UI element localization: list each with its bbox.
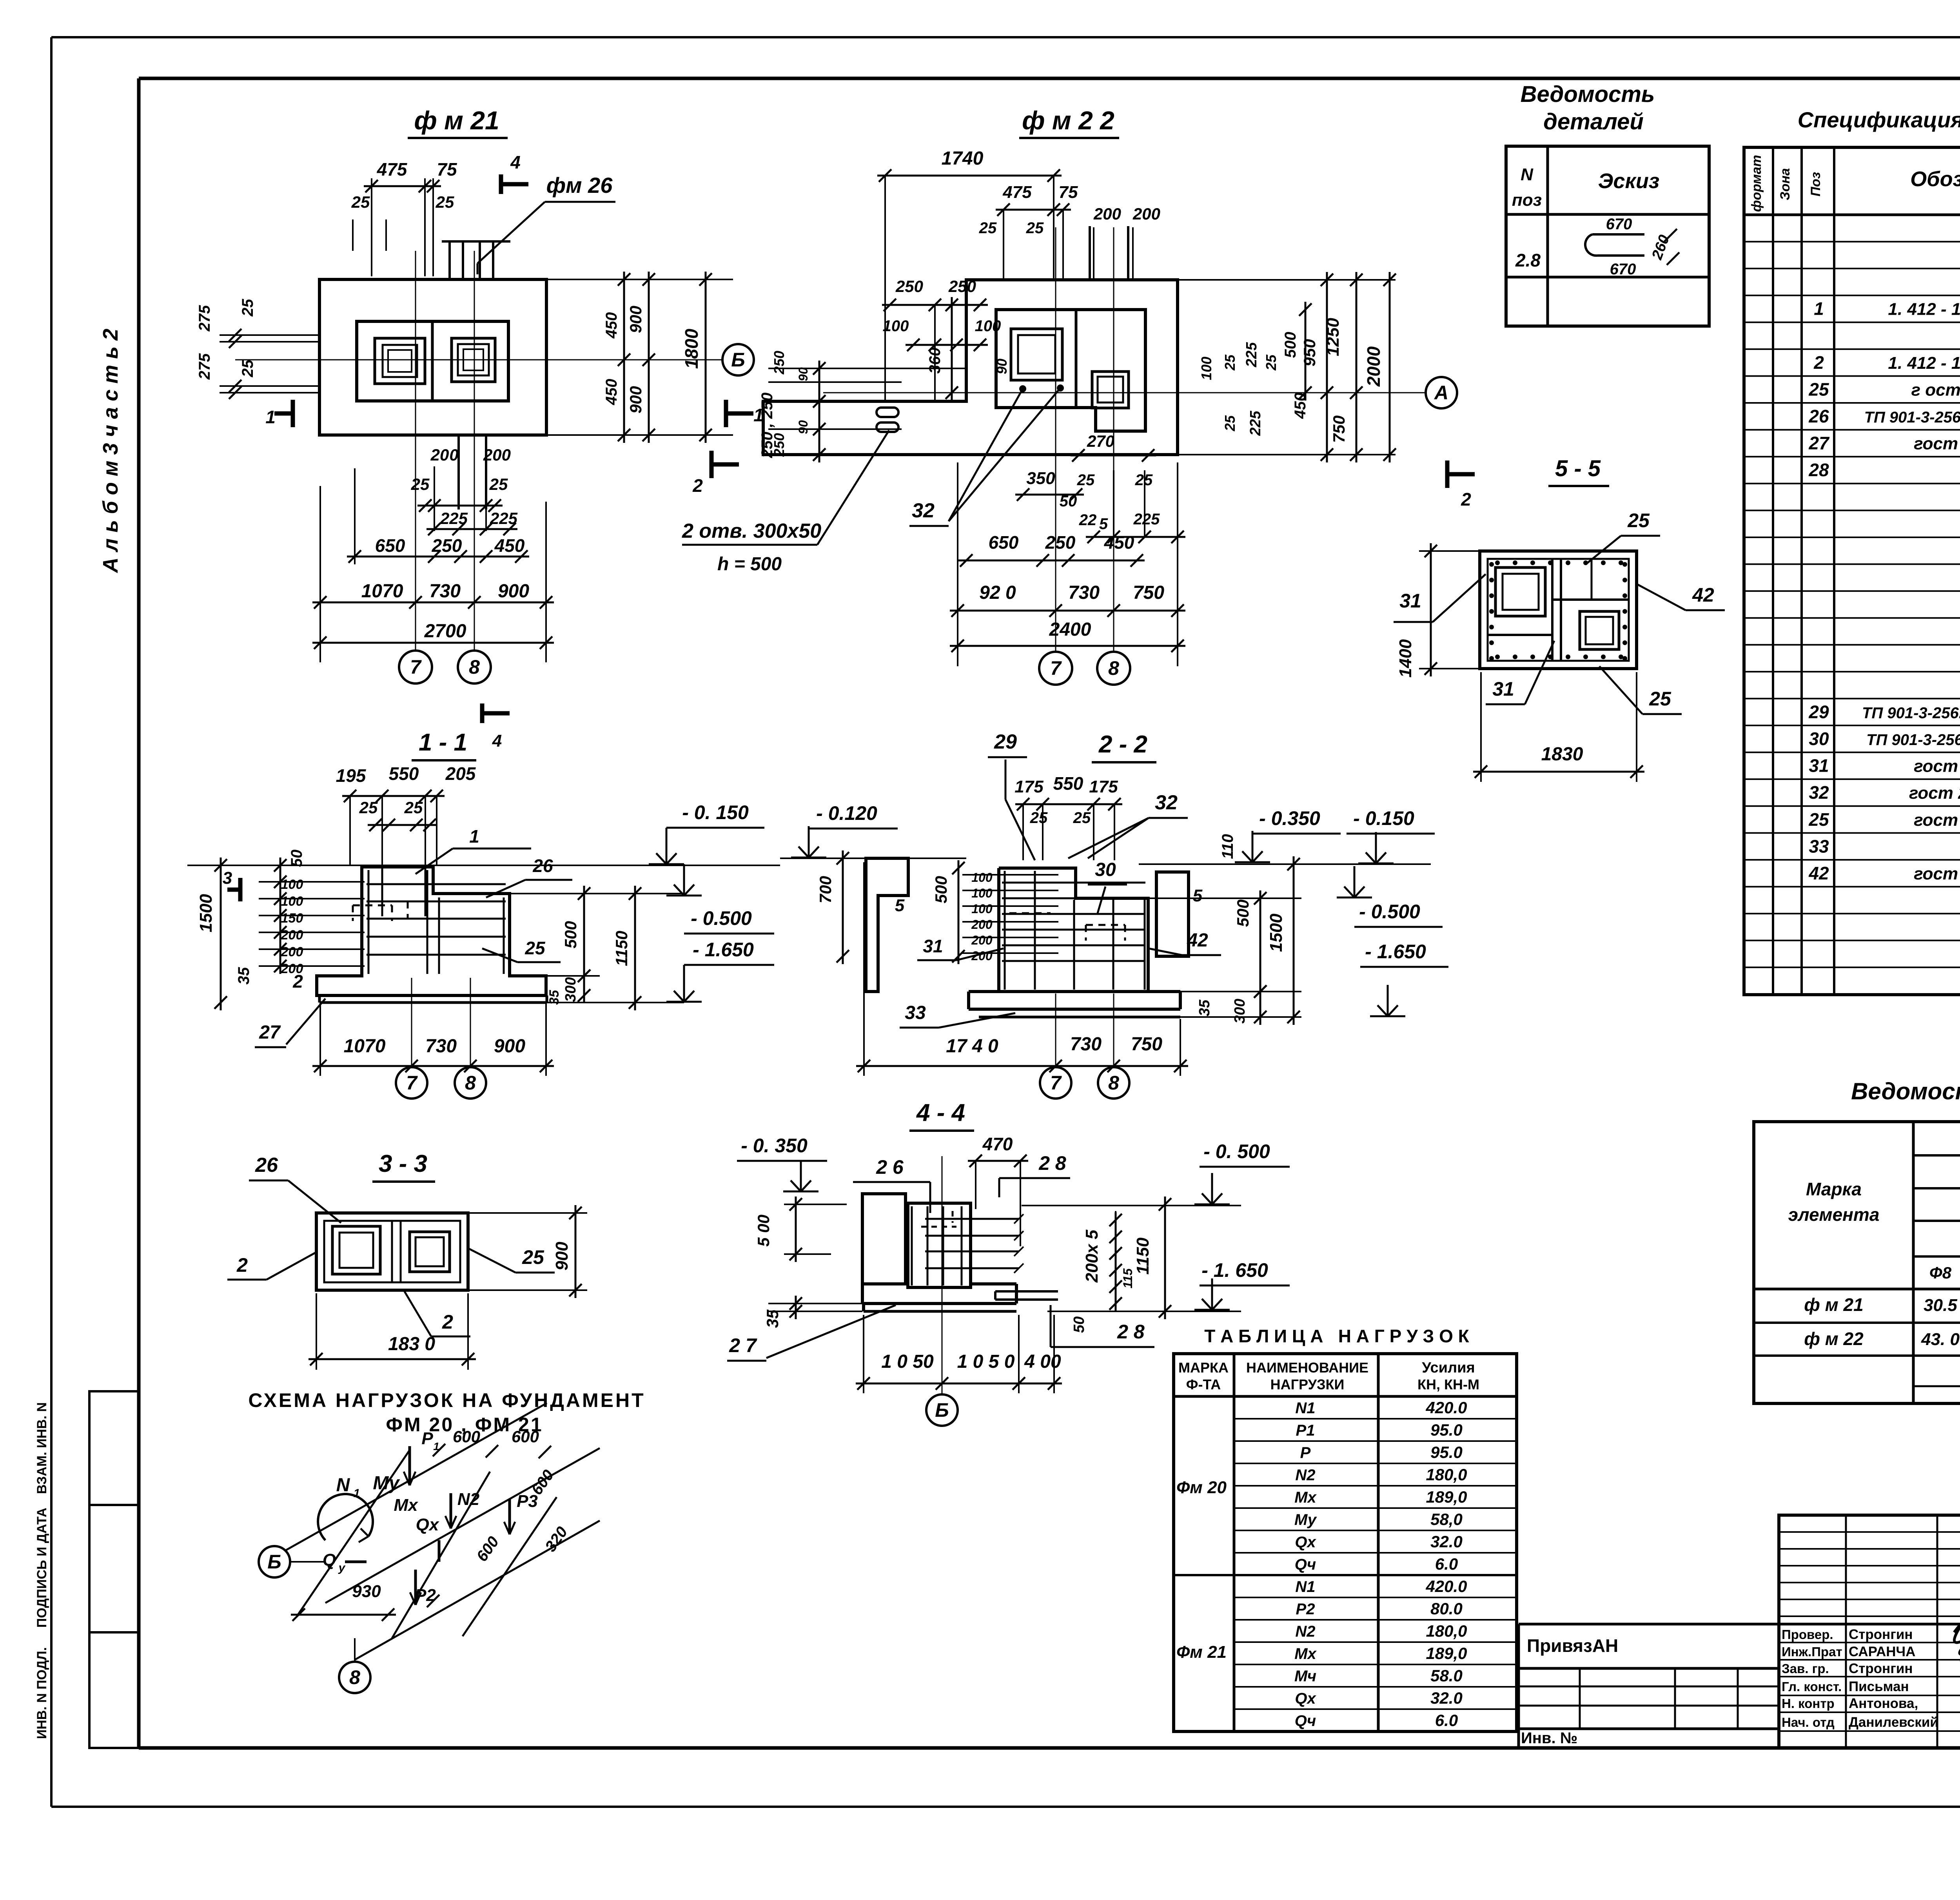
svg-text:300: 300 [563,977,579,1002]
svg-text:250 , 250: 250 , 250 [759,393,776,459]
svg-text:КН, КН-М: КН, КН-М [1417,1376,1479,1392]
axis circle A [1426,377,1457,408]
svg-text:Qч: Qч [1295,1556,1316,1573]
svg-text:НАГРУЗКИ: НАГРУЗКИ [1270,1376,1345,1392]
svg-text:Зав. гр.: Зав. гр. [1782,1661,1829,1676]
1-1 level -0.150 [649,801,764,864]
4-4 right dims 200x5 50 1150 [1071,1197,1171,1333]
svg-text:900: 900 [626,306,645,333]
title block: signature names [1782,1627,1938,1730]
svg-text:30: 30 [1809,729,1829,749]
1-1 level -1.650 [666,939,774,1002]
section mark 2 right of FM22 [1447,460,1475,509]
svg-text:670: 670 [1610,261,1636,278]
svg-text:2700: 2700 [424,621,466,642]
svg-text:2: 2 [236,1254,248,1276]
svg-text:35: 35 [1196,999,1213,1016]
svg-text:950: 950 [1300,339,1319,366]
svg-text:Мх: Мх [1294,1489,1317,1506]
svg-text:22: 22 [1079,511,1097,529]
svg-text:58,0: 58,0 [1430,1510,1463,1528]
svg-text:Ф-ТА: Ф-ТА [1186,1376,1221,1392]
2-2 level -1.650 [1360,941,1448,1016]
svg-text:25: 25 [239,359,256,377]
svg-text:- 0. 500: - 0. 500 [1203,1140,1270,1162]
1-1 ground level line [187,865,780,866]
specification row 1 [1814,299,1960,319]
svg-text:92 0: 92 0 [979,582,1016,603]
3-3 dim 900 [468,1205,587,1298]
svg-text:фм 26: фм 26 [546,173,613,198]
axis B line [235,359,723,361]
svg-text:N2: N2 [1295,1467,1315,1484]
svg-text:Письман: Письман [1849,1679,1909,1694]
svg-text:900: 900 [498,581,529,602]
svg-text:730: 730 [1068,582,1100,603]
FM22 left dims 250 250 100 100 360 [882,277,1010,401]
svg-text:1800: 1800 [681,328,702,369]
specification row 2 [1813,352,1960,373]
specification: column headers [1749,155,1960,212]
svg-text:ТП 901-3-256.89- кж. и83.0.: ТП 901-3-256.89- кж. и83.0.0.0 [1866,731,1960,749]
svg-text:Р2: Р2 [1296,1601,1315,1618]
svg-text:730: 730 [425,1036,457,1057]
svg-text:САРАНЧА: САРАНЧА [1849,1644,1915,1659]
svg-text:Провер.: Провер. [1782,1627,1833,1642]
svg-text:600: 600 [453,1427,480,1446]
svg-text:2 8: 2 8 [1117,1321,1145,1343]
svg-text:35: 35 [547,990,562,1005]
svg-text:90: 90 [796,367,810,381]
svg-text:Му: Му [1294,1511,1317,1528]
2-2 top dims 175 550 175 [1014,773,1122,860]
5-5 dim 1830 [1473,672,1644,782]
svg-text:2 6: 2 6 [876,1156,904,1178]
svg-text:2: 2 [1813,352,1824,373]
specification row 33 [1809,835,1960,859]
svg-text:175: 175 [1014,777,1044,796]
FM21 right anchor box [452,338,495,382]
steel usage: row FM22 [1804,1326,1960,1351]
svg-text:гост 24379.1- 80: гост 24379.1- 80 [1909,783,1960,803]
svg-text:N: N [1521,165,1534,184]
FM22 left anchor box [1011,329,1062,380]
svg-text:650: 650 [989,532,1019,553]
load scheme arrows and labels [318,1429,538,1605]
svg-text:100: 100 [971,902,993,916]
loads table: grid [1174,1354,1517,1731]
svg-text:N1: N1 [1295,1578,1315,1595]
svg-text:200х 5: 200х 5 [1082,1229,1102,1283]
svg-text:25: 25 [1135,471,1153,489]
specification row 25 [1808,378,1960,402]
2-2 bottom dims 1740 730 750 [856,862,1188,1076]
svg-text:Qх: Qх [416,1515,439,1534]
svg-text:930: 930 [352,1582,381,1601]
label 42 (5-5) with leader [1637,584,1725,610]
label 32 with leaders (2-2) [1068,791,1188,858]
svg-text:Мх: Мх [394,1496,418,1515]
FM22 oval holes 2x300x50 [877,408,898,432]
svg-text:ф м 22: ф м 22 [1804,1329,1864,1349]
svg-text:ИНВ. N ПОДЛ.: ИНВ. N ПОДЛ. [34,1647,49,1739]
svg-text:90: 90 [796,420,810,434]
specification row 27 [1808,432,1960,456]
svg-text:1. 412 - 1/77 - В.3 - 020: 1. 412 - 1/77 - В.3 - 020 [1888,300,1960,319]
FM21 dims 1070 730 900 [312,486,554,662]
2-2 level -0.150 [1347,807,1435,863]
specification row 31 [1809,754,1960,779]
svg-text:2: 2 [692,475,703,496]
svg-text:формат: формат [1749,155,1764,212]
svg-text:33: 33 [905,1003,926,1023]
label FM26 with leader [477,173,615,274]
specification row 42 [1808,862,1960,886]
5-5 dim 1400 [1396,543,1480,678]
svg-text:гост 23279 - 85: гост 23279 - 85 [1914,864,1960,883]
FM21 vertical axes 7 and 8 [416,251,474,651]
4-4 rebar lines with hooks [912,1206,1058,1300]
svg-text:42: 42 [1808,863,1829,883]
1-1 section mark 3 [223,868,240,901]
svg-text:- 0.120: - 0.120 [816,802,877,824]
svg-text:Гл. конст.: Гл. конст. [1782,1679,1842,1694]
4-4 level -1.650 [1047,1259,1290,1311]
FM22 far-left small dims 250 90 90 250 [768,351,966,462]
section 4-4: title [909,1099,974,1131]
svg-text:27: 27 [259,1022,281,1043]
svg-text:900: 900 [626,386,645,413]
svg-text:25: 25 [1649,688,1671,710]
FM21 dims 650 250 450 [347,468,529,564]
label 31 left (5-5) with leader [1394,574,1486,622]
svg-text:1: 1 [265,407,276,427]
svg-text:25: 25 [359,798,378,817]
svg-text:7: 7 [410,656,422,678]
4-4 level -0.350 [737,1135,827,1191]
svg-text:25: 25 [436,193,454,211]
svg-text:25: 25 [1627,509,1650,531]
FM22 column lines above [1090,226,1128,280]
svg-text:8: 8 [1108,1072,1119,1094]
loads table: headers [1178,1360,1479,1392]
svg-text:гост 23279 - 85: гост 23279 - 85 [1914,757,1960,776]
svg-text:250: 250 [1045,532,1076,553]
svg-text:26: 26 [532,856,553,876]
4-4 left dims 500 35 [754,1197,862,1328]
svg-text:7: 7 [1050,657,1062,679]
svg-text:25: 25 [1026,219,1044,237]
FM21 left side dims [196,299,319,399]
svg-text:Б: Б [935,1399,949,1421]
svg-text:Ведомость расхода стали на: Ведомость расхода стали на один элемент,… [1851,1078,1960,1104]
svg-text:2: 2 [442,1311,453,1333]
view FM22 plan: title [1019,106,1119,138]
svg-text:110: 110 [1219,834,1236,859]
svg-text:г ост 23279 - 85: г ост 23279 - 85 [1911,380,1960,399]
svg-text:5 00: 5 00 [754,1215,773,1247]
svg-text:Qх: Qх [1295,1690,1316,1707]
label 33 with leader (2-2) [900,1003,1015,1028]
svg-text:115: 115 [1121,1268,1135,1288]
svg-text:420.0: 420.0 [1425,1577,1467,1595]
label 1 (1-1) with leader [416,826,531,874]
svg-text:1740: 1740 [942,148,984,169]
1-1 left dim stack [196,850,365,1010]
label 30 with leader (2-2) [1088,859,1127,913]
svg-text:730: 730 [1070,1034,1102,1055]
svg-text:28: 28 [1808,460,1829,480]
svg-text:27: 27 [1808,433,1830,453]
svg-text:275: 275 [196,305,213,332]
1-1 rebar lines [353,870,506,974]
4-4 body outline [862,1194,1016,1311]
svg-text:Эскиз: Эскиз [1598,169,1660,193]
svg-text:300: 300 [1232,999,1248,1023]
label 26 with leader (4-4) [853,1156,930,1213]
svg-text:150: 150 [281,911,303,926]
label 29 with leader (2-2) [988,731,1035,860]
svg-text:деталей: деталей [1543,109,1644,134]
svg-text:33: 33 [1809,836,1829,856]
svg-text:360: 360 [926,348,944,374]
axis circle 7 (FM21) [399,651,432,683]
axis circle 7 (FM22) [1039,652,1072,685]
svg-text:25: 25 [411,475,430,493]
svg-text:ф м 21: ф м 21 [1804,1294,1863,1315]
svg-text:Фм 20: Фм 20 [1176,1478,1227,1497]
svg-text:270: 270 [1087,432,1114,450]
FM22 plate outline [763,280,1178,455]
svg-text:Инж.Прат: Инж.Прат [1782,1644,1842,1659]
svg-text:250: 250 [895,277,923,296]
section 1-1: title [412,729,476,760]
svg-text:N2: N2 [1295,1623,1315,1640]
label 42 with leader (2-2) [1149,930,1221,955]
svg-text:32.0: 32.0 [1430,1532,1463,1551]
svg-text:Ф8: Ф8 [1929,1264,1952,1282]
svg-text:- 0.350: - 0.350 [1259,807,1320,829]
svg-text:2 - 2: 2 - 2 [1098,731,1147,758]
svg-text:Инв. №: Инв. № [1521,1730,1577,1747]
1-1 top dims 195 550 205 [336,763,476,916]
5-5 rebar dots [1489,560,1627,661]
svg-text:470: 470 [982,1134,1013,1154]
svg-text:75: 75 [437,159,457,179]
axis circle 7 (1-1) [396,978,427,1099]
svg-text:А: А [1434,382,1448,404]
5-5 body [1480,551,1637,669]
svg-text:600: 600 [512,1427,539,1446]
FM22 pedestal [996,310,1145,431]
label 25 bottom (5-5) with leader [1599,666,1682,714]
FM21 plate outline [319,279,546,435]
svg-text:3: 3 [223,868,232,888]
label 26 with leader (3-3) [249,1154,341,1223]
svg-text:5: 5 [1193,886,1203,905]
svg-text:200: 200 [971,917,993,932]
2-2 level -0.500 [1337,866,1443,927]
svg-text:420.0: 420.0 [1425,1398,1467,1417]
svg-text:Т А Б Л И Ц А Н А Г Р У З О: Т А Б Л И Ц А Н А Г Р У З О К [1204,1326,1469,1346]
svg-text:- 1.650: - 1.650 [1365,941,1426,963]
svg-text:Марка: Марка [1806,1179,1862,1199]
svg-text:Стронгин: Стронгин [1849,1661,1913,1676]
FM22 dim 2400 [950,619,1185,652]
svg-text:225: 225 [1243,342,1260,367]
svg-text:8: 8 [349,1666,360,1688]
svg-text:205: 205 [445,763,476,784]
svg-text:Ведомость: Ведомость [1521,82,1655,107]
svg-text:Qч: Qч [1295,1712,1316,1730]
FM22 right anchor box [1092,372,1129,408]
svg-text:1150: 1150 [1133,1237,1152,1275]
svg-text:250: 250 [771,351,787,375]
4-4 bottom dims 1050 1050 400 [856,1315,1062,1393]
svg-text:Зона: Зона [1778,168,1793,200]
svg-text:32: 32 [912,499,935,522]
svg-text:поз: поз [1512,190,1542,210]
specification row 25b [1808,808,1960,832]
svg-text:Б: Б [267,1551,281,1573]
svg-text:195: 195 [336,765,367,786]
label 2 holes 300x50 h=500 with leader [682,430,889,575]
svg-text:29: 29 [1808,702,1829,722]
label 31 bottom (5-5) with leader [1486,641,1554,704]
svg-text:2 8: 2 8 [1038,1152,1066,1174]
svg-text:17 4 0: 17 4 0 [946,1036,998,1057]
svg-text:25: 25 [979,219,997,237]
1-1 level -0.500 [666,864,774,934]
svg-text:Усилия: Усилия [1422,1360,1475,1376]
svg-text:475: 475 [377,159,408,179]
svg-text:- 0.500: - 0.500 [691,907,752,929]
svg-text:25: 25 [1073,809,1091,827]
svg-text:450: 450 [494,535,525,556]
svg-text:50: 50 [1071,1316,1087,1333]
svg-text:450: 450 [603,312,620,339]
svg-text:100: 100 [883,317,909,335]
svg-text:25: 25 [1030,809,1048,827]
svg-text:58.0: 58.0 [1430,1666,1463,1685]
svg-text:А л ь б о м 3 ч а с т ь 2: А л ь б о м 3 ч а с т ь 2 [99,329,122,574]
3-3 left anchor box [332,1226,380,1274]
4-4 level -0.500 [1022,1140,1290,1206]
svg-text:6.0: 6.0 [1435,1711,1458,1730]
svg-text:550: 550 [389,763,419,784]
left margin vertical label: album [99,329,122,574]
svg-text:ф м 2 2: ф м 2 2 [1022,106,1114,135]
svg-text:50: 50 [1060,493,1077,510]
svg-text:- 0. 150: - 0. 150 [682,801,749,823]
2-2 level -0.350 [1235,807,1341,862]
svg-text:200: 200 [971,933,993,947]
svg-text:95.0: 95.0 [1430,1421,1463,1439]
svg-text:900: 900 [552,1242,572,1271]
details list: table [1506,146,1709,326]
svg-text:СХЕМА НАГРУЗОК НА ФУНДАМЕНТ: СХЕМА НАГРУЗОК НА ФУНДАМЕНТ [248,1389,645,1411]
svg-text:30: 30 [1095,859,1116,880]
svg-text:8: 8 [465,1072,476,1094]
label 28 top with leader (4-4) [999,1152,1070,1197]
2-2 ground lines [780,858,1431,864]
svg-text:31: 31 [1809,756,1829,776]
svg-text:1: 1 [469,826,479,847]
svg-text:h = 500: h = 500 [717,554,782,575]
label 2 (1-1) [292,971,303,992]
svg-text:2.8: 2.8 [1515,250,1541,270]
svg-text:4 00: 4 00 [1024,1351,1061,1372]
svg-text:31: 31 [923,936,943,956]
2-2 rebar lines [1002,871,1145,990]
svg-text:1500: 1500 [196,894,216,932]
svg-text:32.0: 32.0 [1430,1689,1463,1707]
svg-text:Фм 21: Фм 21 [1176,1643,1227,1662]
FM22 right dims cluster [1178,272,1396,462]
svg-text:26: 26 [255,1154,278,1177]
svg-text:25: 25 [522,1246,544,1268]
svg-text:НАИМЕНОВАНИЕ: НАИМЕНОВАНИЕ [1246,1360,1368,1376]
FM21 dim 2700 [312,621,554,649]
svg-text:20: 20 [430,446,449,464]
svg-text:900: 900 [494,1036,525,1057]
2-2 right dims 500 1500 300 35 [1148,856,1301,1025]
label 32 with leaders (FM22) [909,384,1064,526]
loads table: data [1176,1398,1467,1730]
svg-text:670: 670 [1606,216,1632,233]
axis circle B [722,344,754,375]
svg-text:25: 25 [351,193,370,211]
FM21 small dims below 200 25 225 [411,446,518,535]
privyazan box [1519,1624,1779,1748]
svg-text:1070: 1070 [361,581,403,602]
svg-text:100: 100 [971,886,993,900]
svg-text:200: 200 [1132,205,1160,223]
svg-text:ВЗАМ. ИНВ. N: ВЗАМ. ИНВ. N [34,1402,49,1494]
svg-text:ПОДПИСЬ И ДАТА: ПОДПИСЬ И ДАТА [34,1508,49,1628]
svg-text:МАРКА: МАРКА [1178,1360,1229,1376]
steel usage: title [1851,1078,1960,1104]
steel usage: row FM21 [1804,1292,1960,1317]
FM21 top dimensions 475 75 [351,159,457,276]
specification: title [1798,107,1960,132]
svg-text:1. 412 - 1/77 - В.3 - 100: 1. 412 - 1/77 - В.3 - 100 [1888,354,1960,373]
svg-text:1830: 1830 [1541,744,1583,765]
svg-text:Н. контр: Н. контр [1782,1696,1835,1711]
svg-text:100: 100 [1198,357,1214,380]
svg-text:1500: 1500 [1267,914,1286,952]
svg-text:225: 225 [1247,410,1264,436]
svg-text:31: 31 [1492,678,1514,700]
svg-text:50: 50 [288,850,305,867]
svg-text:N2: N2 [457,1490,480,1509]
title block: left grid [1779,1515,1960,1748]
axis circle 8 (FM21) [458,651,491,683]
svg-text:500: 500 [1234,899,1252,927]
svg-text:Обозначение: Обозначение [1910,167,1960,191]
svg-text:N: N [336,1475,350,1496]
FM22 dim 270 [1071,432,1156,462]
FM21 column lines above [442,241,510,279]
svg-text:25: 25 [489,475,508,493]
svg-text:Поз: Поз [1808,172,1823,197]
svg-text:2: 2 [1461,489,1471,509]
svg-text:80.0: 80.0 [1430,1599,1463,1618]
load scheme dims 600 930 320 [291,1427,571,1621]
load scheme title [248,1389,645,1436]
label 2 bottom (3-3) [404,1290,470,1336]
svg-text:6.0: 6.0 [1435,1555,1458,1573]
